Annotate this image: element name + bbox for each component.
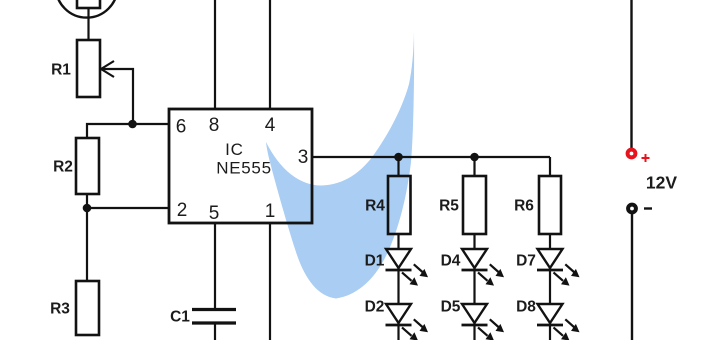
svg-text:3: 3: [298, 147, 309, 168]
svg-text:R2: R2: [53, 159, 73, 176]
svg-text:R4: R4: [365, 198, 385, 215]
wire: [312, 156, 550, 158]
wire: [473, 234, 475, 340]
wire: [86, 194, 88, 281]
svg-text:R5: R5: [439, 198, 459, 215]
op-amp U1: [169, 109, 312, 223]
LED D7: [537, 249, 580, 286]
wire: [630, 0, 632, 148]
svg-text:NE555: NE555: [216, 158, 271, 177]
LED D5: [462, 304, 505, 340]
lamp: [56, 0, 118, 18]
LED D1: [386, 249, 429, 286]
svg-text:1: 1: [265, 201, 276, 222]
svg-text:D7: D7: [516, 253, 536, 270]
svg-text:R1: R1: [51, 62, 71, 79]
svg-text:D2: D2: [365, 299, 385, 316]
svg-text:R6: R6: [514, 198, 534, 215]
resistor R5: [463, 176, 486, 234]
svg-text:D4: D4: [441, 253, 461, 270]
wire: [87, 207, 169, 209]
wire: [473, 157, 475, 176]
LED D2: [386, 304, 429, 340]
wire: [214, 223, 216, 308]
LED D8: [537, 304, 580, 340]
junction: [128, 120, 137, 129]
svg-text:IC: IC: [225, 140, 244, 159]
wire: [397, 234, 399, 340]
wire: [631, 214, 633, 340]
wire: [269, 0, 271, 109]
label IC NE555: [216, 140, 271, 178]
resistor R2: [76, 138, 99, 194]
junction: [470, 153, 479, 162]
wire: [101, 69, 133, 124]
svg-text:8: 8: [209, 115, 220, 136]
wire: [397, 157, 399, 176]
resistor R6: [539, 176, 561, 234]
resistor R3: [76, 281, 99, 335]
negative terminal: [628, 205, 652, 213]
svg-text:5: 5: [209, 203, 220, 224]
junction: [394, 153, 403, 162]
capacitor C1: [192, 310, 236, 340]
svg-text:6: 6: [176, 116, 187, 137]
wire: [549, 157, 551, 176]
svg-text:C1: C1: [170, 309, 190, 326]
svg-text:4: 4: [265, 115, 276, 136]
junction: [83, 204, 92, 213]
wire: [87, 8, 89, 40]
svg-text:D5: D5: [441, 299, 461, 316]
wire: [269, 223, 271, 340]
svg-text:D8: D8: [516, 299, 536, 316]
wire: [214, 0, 216, 109]
resistor R4: [388, 176, 411, 234]
LED D4: [462, 249, 505, 286]
svg-text:2: 2: [177, 200, 188, 221]
wire: [549, 234, 551, 340]
potentiometer R1: [77, 40, 114, 97]
svg-text:R3: R3: [50, 301, 70, 318]
svg-text:12V: 12V: [646, 172, 677, 192]
positive terminal: [628, 150, 650, 162]
svg-text:D1: D1: [365, 253, 385, 270]
wire: [87, 124, 169, 138]
